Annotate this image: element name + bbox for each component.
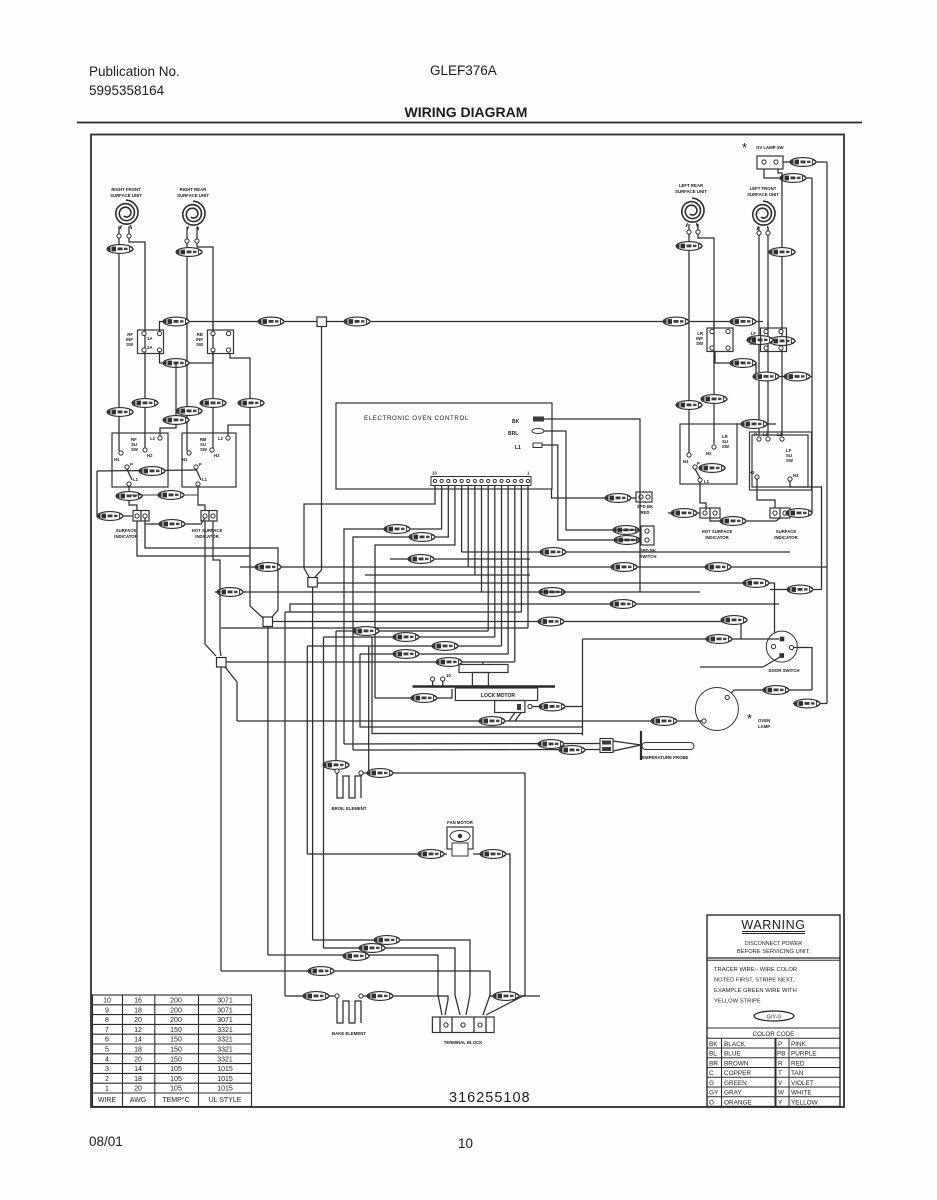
wire h940 row bbox=[313, 940, 470, 1015]
wire right border riser bbox=[826, 567, 828, 704]
svg-text:INDICATOR: INDICATOR bbox=[114, 534, 138, 539]
svg-text:R: R bbox=[778, 1061, 783, 1068]
svg-text:1A: 1A bbox=[147, 336, 153, 341]
svg-text:10: 10 bbox=[458, 1136, 473, 1151]
door switch terminals bbox=[780, 637, 785, 642]
oven lamp terminals bbox=[725, 695, 729, 699]
svg-text:1015: 1015 bbox=[217, 1076, 233, 1083]
wire label capsule bbox=[132, 399, 159, 408]
svg-text:150: 150 bbox=[170, 1047, 182, 1054]
wire door switch top lead bbox=[583, 638, 779, 640]
svg-text:GY: GY bbox=[709, 1090, 719, 1097]
wire lr inf bottom link bbox=[715, 352, 756, 364]
wire band h662 lock motor feed bbox=[226, 661, 515, 663]
wire band h637 bbox=[324, 636, 495, 638]
oven lamp body bbox=[695, 688, 738, 731]
svg-text:105: 105 bbox=[170, 1066, 182, 1073]
wire label capsule bbox=[343, 952, 370, 961]
svg-text:3071: 3071 bbox=[217, 1007, 233, 1014]
svg-text:6: 6 bbox=[105, 1037, 109, 1044]
svg-text:20: 20 bbox=[134, 1086, 142, 1093]
wire eoc pin10 drop bbox=[375, 485, 455, 698]
svg-text:AWG: AWG bbox=[130, 1097, 146, 1104]
svg-text:WIRE: WIRE bbox=[98, 1097, 117, 1104]
svg-text:DOOR SWITCH: DOOR SWITCH bbox=[768, 668, 799, 673]
svg-text:SURFACE: SURFACE bbox=[776, 529, 797, 534]
fan motor body bbox=[447, 827, 473, 849]
wire probe lead 2 bbox=[353, 749, 600, 752]
wire lamp top lead bbox=[728, 690, 812, 697]
wire lock motor bottom V bbox=[509, 713, 515, 722]
svg-text:OV LAMP SW: OV LAMP SW bbox=[756, 145, 785, 150]
wire lr L1 drop to hot surface connector bbox=[700, 482, 706, 510]
surface unit switch LF box bbox=[752, 435, 808, 487]
surface unit switch RB box bbox=[182, 433, 236, 487]
wire label capsule bbox=[787, 585, 814, 594]
wire label capsule bbox=[613, 526, 640, 535]
svg-text:13: 13 bbox=[432, 471, 437, 476]
wire rf coil left drop to su sw H1 bbox=[118, 238, 120, 451]
temperature probe body bbox=[642, 743, 694, 750]
svg-text:RED: RED bbox=[640, 510, 649, 515]
wire label capsule bbox=[323, 761, 350, 770]
temperature probe crimp bbox=[613, 741, 641, 751]
wire label capsule bbox=[769, 248, 796, 257]
wire fan left lead bbox=[307, 853, 447, 855]
svg-text:3: 3 bbox=[105, 1066, 109, 1073]
svg-text:VIOLET: VIOLET bbox=[791, 1080, 814, 1087]
wire eoc pin3 drop bbox=[501, 485, 503, 646]
wire rf L1 drop bbox=[129, 486, 137, 510]
wire bus drop to lf inf sw bbox=[767, 322, 769, 329]
switch blade lr bbox=[695, 469, 700, 478]
wire h948 row bbox=[324, 948, 461, 1015]
wire band h621 from J2 bbox=[273, 622, 742, 640]
wire broil left riser bbox=[335, 631, 337, 770]
wire band h612 bbox=[285, 611, 521, 613]
wire lf H1 drop to surface connector bbox=[757, 479, 775, 508]
tracer example capsule bbox=[754, 1011, 794, 1021]
wire label capsule bbox=[769, 337, 796, 346]
wire label capsule bbox=[436, 658, 463, 667]
wire label capsule bbox=[605, 494, 632, 503]
oven lamp switch box bbox=[757, 156, 783, 169]
svg-text:1: 1 bbox=[105, 1086, 109, 1093]
spd bk switch connector bbox=[641, 526, 654, 545]
wire label capsule bbox=[671, 509, 698, 518]
svg-text:H1: H1 bbox=[683, 459, 689, 464]
wire eoc pin0 drop bbox=[527, 485, 529, 628]
lock motor box bbox=[455, 688, 537, 701]
wire lf l2 drop from ov lamp sw bbox=[778, 169, 782, 436]
svg-text:GRAY: GRAY bbox=[724, 1090, 742, 1097]
svg-text:H2: H2 bbox=[706, 451, 712, 456]
svg-text:12: 12 bbox=[134, 1027, 142, 1034]
terminal block terminals bbox=[444, 1023, 448, 1027]
wire h955 row bbox=[268, 955, 442, 1015]
wire label capsule bbox=[614, 536, 641, 545]
wire ov lamp sw right drop bbox=[826, 162, 828, 567]
wire label capsule bbox=[200, 399, 227, 408]
wire lf inf bottom run bbox=[756, 363, 812, 377]
wire rr coil left drop to su sw H1 bbox=[186, 243, 188, 451]
wire eoc pin11 drop bbox=[353, 485, 448, 750]
wire label capsule bbox=[158, 491, 185, 500]
svg-text:RIGHT REAR: RIGHT REAR bbox=[180, 187, 208, 192]
svg-text:LOCK MOTOR: LOCK MOTOR bbox=[481, 693, 515, 699]
wire bus drop to rb inf sw bbox=[212, 322, 214, 333]
svg-text:PINK: PINK bbox=[791, 1041, 807, 1048]
hot surface indicator connector pair left bbox=[201, 511, 217, 522]
color code table bbox=[707, 1038, 840, 1106]
wire J3 lamp branch bbox=[225, 667, 237, 721]
wire rr coil right drop to su sw H2 bbox=[197, 243, 213, 448]
wire label capsule bbox=[743, 579, 770, 588]
wire band h583 from J1 bbox=[318, 583, 775, 643]
wire label capsule bbox=[538, 617, 565, 626]
svg-text:L2: L2 bbox=[150, 436, 156, 441]
svg-text:SURFACE: SURFACE bbox=[116, 528, 137, 533]
infinite switch LF box bbox=[761, 328, 787, 352]
svg-text:LAMP: LAMP bbox=[758, 724, 770, 729]
right rear surface unit terminals bbox=[185, 239, 189, 243]
svg-text:TEMPERATURE PROBE: TEMPERATURE PROBE bbox=[640, 755, 689, 760]
svg-text:SW: SW bbox=[749, 341, 757, 346]
wire label capsule bbox=[706, 635, 733, 644]
svg-text:GLEF376A: GLEF376A bbox=[430, 63, 497, 78]
svg-text:105: 105 bbox=[170, 1086, 182, 1093]
svg-text:INDICATOR: INDICATOR bbox=[705, 535, 729, 540]
wire fan right lead bbox=[473, 854, 510, 996]
wire door switch bottom lead bbox=[700, 657, 780, 667]
wire label capsule bbox=[408, 555, 435, 564]
wire label capsule bbox=[238, 399, 265, 408]
wire h971 row bbox=[221, 971, 490, 1015]
wire lf coil left drop to su sw P bbox=[758, 235, 760, 436]
wire eoc pin1 drop bbox=[514, 485, 516, 662]
wire ov lamp sw bottom to capsule bbox=[764, 169, 812, 178]
terminal block body bbox=[432, 1017, 494, 1033]
svg-text:GREEN: GREEN bbox=[724, 1080, 747, 1087]
wire bus drop to lr inf sw bbox=[713, 322, 715, 329]
svg-text:BL: BL bbox=[709, 1051, 717, 1058]
wire label capsule bbox=[611, 563, 638, 572]
svg-text:200: 200 bbox=[170, 1017, 182, 1024]
svg-text:BLACK: BLACK bbox=[724, 1041, 746, 1048]
wire label capsule bbox=[344, 317, 371, 326]
wire between indicator pairs bbox=[145, 518, 205, 524]
svg-text:BROIL ELEMENT: BROIL ELEMENT bbox=[331, 806, 366, 811]
wire broil right riser down bbox=[486, 773, 525, 1015]
wire h703 bbox=[793, 703, 827, 705]
surface indicator connector pair left bbox=[133, 511, 149, 522]
wire surface connector right out bbox=[790, 512, 812, 514]
wire door area riser bbox=[582, 639, 584, 736]
wire J1 down leg bbox=[312, 587, 314, 940]
wire from BRL tab bbox=[544, 431, 641, 530]
color code header bbox=[707, 1027, 840, 1029]
wire indicator left pair drop2 to J2 bbox=[145, 524, 278, 617]
wire band h559 bbox=[390, 558, 530, 560]
lock motor stem bbox=[472, 673, 488, 687]
svg-text:L2: L2 bbox=[218, 436, 224, 441]
svg-text:TAN: TAN bbox=[791, 1070, 804, 1077]
svg-text:BK: BK bbox=[512, 419, 520, 425]
wire h996 right link bbox=[490, 995, 540, 997]
wire label capsule bbox=[741, 420, 768, 429]
junction node J3 bbox=[217, 658, 227, 668]
svg-text:LEFT FRONT: LEFT FRONT bbox=[750, 186, 777, 191]
svg-text:L1: L1 bbox=[133, 477, 139, 482]
wire eoc pin7 drop bbox=[474, 485, 476, 575]
svg-text:4: 4 bbox=[105, 1056, 109, 1063]
svg-text:H2: H2 bbox=[793, 473, 799, 478]
svg-text:L1: L1 bbox=[202, 477, 208, 482]
svg-text:3321: 3321 bbox=[217, 1056, 233, 1063]
wire spd bk red lead bbox=[552, 489, 637, 498]
wire label capsule bbox=[701, 395, 728, 404]
svg-text:OVEN: OVEN bbox=[758, 718, 770, 723]
wire label capsule bbox=[97, 512, 124, 521]
wire riser x323 to bottom bbox=[323, 637, 325, 948]
svg-text:10: 10 bbox=[446, 673, 451, 678]
svg-text:3321: 3321 bbox=[217, 1047, 233, 1054]
svg-text:NOTED FIRST, STRIPE NEXT,: NOTED FIRST, STRIPE NEXT, bbox=[714, 978, 795, 984]
bus junction node bbox=[317, 317, 327, 327]
wire label capsule bbox=[794, 699, 821, 708]
wire label capsule bbox=[790, 158, 817, 167]
wire band h628 bbox=[221, 627, 528, 629]
wire label capsule bbox=[663, 317, 690, 326]
wire label capsule bbox=[784, 372, 811, 381]
right front surface unit terminals bbox=[117, 234, 121, 238]
broil element bbox=[337, 772, 361, 798]
svg-text:200: 200 bbox=[170, 998, 182, 1005]
svg-text:H1: H1 bbox=[749, 470, 755, 475]
svg-text:DISCONNECT POWER: DISCONNECT POWER bbox=[745, 941, 803, 947]
temperature probe red splice bbox=[600, 739, 613, 753]
warning divider bbox=[707, 957, 840, 959]
wire label capsule bbox=[705, 563, 732, 572]
svg-text:SW: SW bbox=[126, 342, 134, 347]
wire between right indicator pairs bbox=[710, 518, 780, 521]
right front surface unit coil bbox=[116, 200, 138, 229]
svg-text:TRACER WIRE:- WIRE COLO: TRACER WIRE:- WIRE COLOR bbox=[714, 967, 797, 973]
infinite switch LR box bbox=[707, 328, 733, 352]
wire label capsule bbox=[353, 627, 380, 636]
wire label capsule bbox=[786, 509, 813, 518]
svg-text:WHITE: WHITE bbox=[791, 1090, 812, 1097]
infinite switch RB box bbox=[208, 330, 234, 354]
warning box frame bbox=[707, 915, 840, 1107]
wire eoc pin13 drop bbox=[304, 485, 435, 577]
eoc terminal pins bbox=[433, 479, 529, 482]
wire label capsule bbox=[163, 359, 190, 368]
wire above lf su sw bbox=[736, 423, 776, 425]
wire broil right lead bbox=[363, 772, 525, 774]
wire rf coil right drop to su sw H2 bbox=[129, 238, 145, 448]
wire lock cap drop bbox=[482, 662, 484, 665]
svg-text:SW: SW bbox=[722, 444, 730, 449]
wire lock motor left loop bbox=[375, 689, 452, 698]
svg-text:2: 2 bbox=[105, 1076, 109, 1083]
bake element bbox=[337, 997, 361, 1023]
wire band h592 to door switch bbox=[215, 591, 700, 593]
wire from L1 tab bbox=[542, 445, 641, 540]
svg-text:SURFACE UNIT: SURFACE UNIT bbox=[177, 193, 209, 198]
svg-text:20: 20 bbox=[134, 1017, 142, 1024]
wire label capsule bbox=[409, 533, 436, 542]
wire label capsule bbox=[610, 600, 637, 609]
svg-text:P: P bbox=[697, 461, 700, 466]
left front surface unit terminals bbox=[757, 231, 761, 235]
wire capsule into hot surface connector bbox=[668, 512, 700, 514]
wire eoc pin4 drop bbox=[494, 485, 496, 637]
wire label capsule bbox=[163, 416, 190, 425]
wire band h631 to broil riser bbox=[336, 630, 488, 632]
left rear surface unit coil bbox=[682, 198, 704, 227]
top bus wire L1 bbox=[159, 321, 763, 323]
svg-text:ORANGE: ORANGE bbox=[724, 1099, 752, 1106]
wire label capsule bbox=[176, 248, 203, 257]
wire gauge table bbox=[93, 995, 252, 1107]
svg-text:08/01: 08/01 bbox=[89, 1134, 123, 1149]
wire band h604 bbox=[290, 604, 779, 612]
svg-text:SW: SW bbox=[786, 458, 794, 463]
svg-text:7: 7 bbox=[105, 1027, 109, 1034]
left front surface unit coil bbox=[753, 201, 775, 230]
svg-text:150: 150 bbox=[170, 1027, 182, 1034]
wire label capsule bbox=[374, 936, 401, 945]
wire rb inf to rb su sw L2 bbox=[228, 354, 250, 437]
wire eoc pin8 drop bbox=[467, 485, 469, 567]
wire label capsule bbox=[747, 336, 774, 345]
svg-text:9: 9 bbox=[105, 1007, 109, 1014]
wire label capsule bbox=[367, 769, 394, 778]
wire label capsule bbox=[432, 642, 459, 651]
svg-text:*: * bbox=[747, 711, 752, 726]
surface unit switch LF outer box bbox=[750, 432, 812, 490]
wire band h654 bbox=[360, 653, 508, 655]
svg-text:FAN MOTOR: FAN MOTOR bbox=[447, 820, 474, 825]
svg-text:BK: BK bbox=[709, 1041, 718, 1048]
svg-text:H2: H2 bbox=[147, 453, 153, 458]
svg-text:HOT SURFACE: HOT SURFACE bbox=[702, 529, 733, 534]
wire rf P left drop bbox=[97, 471, 132, 516]
wire label capsule bbox=[538, 740, 565, 749]
svg-text:316255108: 316255108 bbox=[449, 1090, 531, 1106]
wire rf inf to rf su sw L2 bbox=[160, 363, 176, 436]
wire lf coil right drop to su sw L1 bbox=[767, 235, 769, 436]
wire label capsule bbox=[217, 588, 244, 597]
lock motor lower box bbox=[495, 701, 525, 713]
svg-text:SURFACE UNIT: SURFACE UNIT bbox=[110, 193, 142, 198]
wire label capsule bbox=[176, 407, 203, 416]
svg-text:HOT SURFACE: HOT SURFACE bbox=[192, 528, 223, 533]
wire label capsule bbox=[384, 525, 411, 534]
hot surface indicator connector pair right bbox=[700, 508, 720, 518]
svg-text:3321: 3321 bbox=[217, 1037, 233, 1044]
svg-text:V: V bbox=[778, 1080, 783, 1087]
wire label capsule bbox=[559, 746, 586, 755]
wire bus drop to rf inf sw bbox=[159, 322, 161, 333]
svg-text:3321: 3321 bbox=[217, 1027, 233, 1034]
wire bus vertical into J1 bbox=[315, 327, 322, 578]
svg-text:SW: SW bbox=[131, 447, 139, 452]
wire label capsule bbox=[480, 850, 507, 859]
svg-text:WIRING DIAGRAM: WIRING DIAGRAM bbox=[405, 104, 528, 120]
wire door switch right lead bbox=[794, 648, 813, 691]
svg-text:150: 150 bbox=[170, 1056, 182, 1063]
lock motor left terminals bbox=[431, 677, 435, 681]
wire from BK tab bbox=[544, 419, 640, 592]
svg-text:200: 200 bbox=[170, 1007, 182, 1014]
wire label capsule on h592 bbox=[539, 588, 566, 597]
wire eoc pin1b drop bbox=[520, 485, 522, 612]
svg-text:SURFACE UNIT: SURFACE UNIT bbox=[747, 192, 779, 197]
svg-text:10: 10 bbox=[103, 998, 111, 1005]
junction node J2 bbox=[263, 617, 273, 627]
lock motor cap bbox=[459, 665, 508, 673]
wire lock terminal stubs bbox=[432, 681, 434, 686]
wire label capsule bbox=[116, 492, 143, 501]
wire label capsule bbox=[676, 401, 703, 410]
svg-text:BRL: BRL bbox=[508, 431, 518, 437]
svg-text:INDICATOR: INDICATOR bbox=[774, 535, 798, 540]
wire label capsule bbox=[107, 245, 134, 254]
wire label capsule bbox=[730, 317, 757, 326]
svg-text:SW: SW bbox=[196, 342, 204, 347]
svg-text:150: 150 bbox=[170, 1037, 182, 1044]
svg-text:P: P bbox=[199, 462, 202, 467]
wire J3 down leg bbox=[220, 667, 222, 971]
wire label capsule bbox=[393, 650, 420, 659]
svg-text:H1: H1 bbox=[114, 457, 120, 462]
svg-text:PB: PB bbox=[777, 1051, 786, 1058]
svg-text:14: 14 bbox=[134, 1037, 142, 1044]
wire hot surface pair drop2 to J3 bbox=[213, 521, 221, 656]
switch blade rb bbox=[196, 469, 201, 480]
wire label capsule bbox=[780, 174, 807, 183]
wire band h552 bbox=[462, 551, 790, 553]
wire label capsule bbox=[107, 408, 134, 417]
wire riser x360 to h727 bbox=[360, 654, 583, 727]
wire eoc pin6 drop bbox=[481, 485, 483, 592]
svg-text:YELLOW STRIPE: YELLOW STRIPE bbox=[714, 999, 761, 1005]
wire label capsule bbox=[730, 359, 757, 368]
wire label capsule bbox=[651, 717, 678, 726]
svg-text:G: G bbox=[709, 1080, 714, 1087]
svg-text:SURFACE UNIT: SURFACE UNIT bbox=[675, 189, 707, 194]
wire label capsule bbox=[763, 686, 790, 695]
svg-text:Publication No.: Publication No. bbox=[89, 64, 180, 79]
wire label capsule bbox=[258, 317, 285, 326]
svg-text:P: P bbox=[778, 1041, 782, 1048]
svg-text:W: W bbox=[778, 1090, 785, 1097]
wire riser x368 to broil right bbox=[368, 646, 370, 773]
wire label capsule bbox=[393, 633, 420, 642]
svg-text:SWITCH: SWITCH bbox=[640, 554, 657, 559]
surface unit switch LR box bbox=[680, 424, 737, 484]
wire label capsule bbox=[539, 702, 566, 711]
wire label capsule bbox=[255, 563, 282, 572]
right rear surface unit coil bbox=[183, 201, 205, 230]
wire oven lamp left lead h721 bbox=[237, 720, 702, 722]
wire eoc pin2 drop bbox=[507, 485, 509, 654]
wire hot surface pair drop to J3 bbox=[205, 521, 216, 656]
svg-text:16: 16 bbox=[134, 998, 142, 1005]
wire bake left riser bbox=[284, 612, 286, 996]
